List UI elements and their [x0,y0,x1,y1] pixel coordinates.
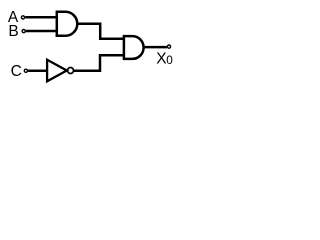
terminal A [21,16,24,19]
wire AND U2 output to terminal X0 [143,46,167,49]
wire A to AND gate U1 input 1 [25,16,58,19]
terminal X0 [167,45,170,48]
terminal C [24,69,27,72]
wire AND U1 output to AND gate U2 input 1 [77,24,124,39]
AND gate U1 [57,12,78,36]
inverter U3 bubble [68,68,74,74]
wire C to inverter U3 input [28,69,48,72]
AND gate U2 [124,36,144,59]
svg-text:0: 0 [166,53,173,67]
wire B to AND gate U1 input 2 [26,30,58,33]
inverter U3 triangle [47,60,67,82]
svg-text:C: C [11,63,22,80]
terminal B [22,30,25,33]
svg-text:B: B [8,23,18,40]
wire inverter U3 output to AND gate U2 input 2 [74,55,124,71]
